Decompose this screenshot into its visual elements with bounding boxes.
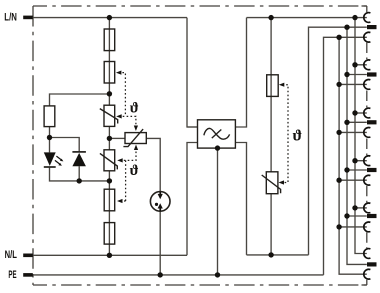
- junction protected L to arc bus: [352, 15, 357, 20]
- bus terminal arc upper: [355, 18, 367, 254]
- terminal N/L blade: [23, 254, 33, 258]
- wire group3 arc stub: [355, 112, 367, 114]
- thermal link theta2 dashed net: [120, 148, 136, 201]
- varistor MOV2 body: [104, 150, 115, 171]
- diode D2 bar: [72, 151, 86, 153]
- wire L input drop to converter: [187, 18, 198, 127]
- svg-text:N/L: N/L: [5, 249, 18, 261]
- junction group4 arc2: [336, 178, 341, 183]
- node L1 junction on L/N bus: [107, 15, 112, 20]
- junction GDT to PE bus: [158, 272, 163, 277]
- junction group5 arc: [352, 205, 357, 210]
- wire group5 arc2 stub: [339, 226, 367, 228]
- wire LED cathode to bottom rail: [50, 168, 110, 181]
- group1 arc upper: [364, 13, 371, 23]
- svg-text:ϑ: ϑ: [293, 128, 303, 145]
- wire diode D2 bottom: [78, 166, 80, 181]
- right varistor MOV4 diagonal: [262, 175, 281, 193]
- LED D1 emission arrows: [55, 156, 64, 166]
- junction group4 blade: [344, 167, 349, 172]
- group5 blade: [367, 214, 377, 218]
- theta2 arrow into RV3 bottom: [134, 145, 138, 151]
- enclosure dash-dot border right segments: [366, 6, 368, 12]
- resistor R1: [44, 106, 55, 127]
- group5 arc lower: [364, 222, 371, 232]
- wire right varistor to protected N: [270, 194, 272, 255]
- varistor MOV1 body: [104, 105, 115, 126]
- wire RV3 to GDT chain: [146, 138, 160, 191]
- bus terminal blade mid: [347, 27, 367, 264]
- wire node C through fuses to N/L: [108, 171, 110, 256]
- terminal L/N blade: [23, 16, 33, 20]
- wire group2 arc2 stub: [339, 83, 367, 85]
- theta2 arrow into MOV2: [117, 158, 123, 162]
- theta3 arrow into right disconnector: [279, 83, 285, 87]
- junction converter to PE bus: [215, 272, 220, 277]
- wire node A to resistor branch: [50, 94, 110, 138]
- wire group4 arc stub: [355, 160, 367, 162]
- wire protected N segment: [247, 254, 309, 256]
- group6 blade: [367, 262, 377, 266]
- junction group2 arc: [352, 62, 357, 67]
- varistor MOV1 diagonal: [100, 109, 118, 124]
- wire converter bottom to PE: [217, 148, 219, 275]
- fuse F3: [104, 189, 115, 211]
- junction group5 blade: [344, 213, 349, 218]
- LED D1 cathode bar: [44, 166, 56, 168]
- wire group5 blade stub: [347, 215, 367, 217]
- wire LED anode drop: [49, 138, 51, 153]
- right varistor MOV4 body: [266, 172, 278, 194]
- fuse F4: [104, 223, 115, 245]
- wire group2 arc stub: [355, 64, 367, 66]
- junction chain to N/L bus: [107, 253, 112, 258]
- series disconnector RV3 body: [125, 133, 146, 144]
- svg-text:ϑ: ϑ: [130, 100, 139, 116]
- junction group5 arc2: [336, 224, 341, 229]
- junction converter bottom pin: [215, 145, 220, 150]
- group2 arc lower: [364, 80, 371, 90]
- converter U1 sine symbol: [204, 128, 230, 139]
- thermal link theta3 dashed net: [282, 85, 288, 183]
- wire group5 arc stub: [355, 207, 367, 209]
- svg-text:PE: PE: [8, 269, 16, 281]
- wire group4 arc2 stub: [339, 179, 367, 181]
- wire right varistor chain top through disconnector: [270, 18, 272, 172]
- varistor MOV2 diagonal: [100, 153, 117, 169]
- right thermal disconnector body: [267, 75, 279, 97]
- junction group3 arc: [352, 110, 357, 115]
- converter U1 cross stroke: [212, 130, 222, 139]
- gas discharge tube gas dot: [155, 203, 158, 206]
- wire node B link: [108, 126, 110, 149]
- junction group3 arc2: [336, 130, 341, 135]
- wire group3 blade stub: [347, 121, 367, 123]
- series disconnector RV3 diagonal: [123, 129, 143, 147]
- wire PE bus: [33, 274, 324, 276]
- junction blade bus group1: [344, 25, 349, 30]
- svg-text:L/N: L/N: [4, 11, 17, 23]
- wire GDT to PE: [159, 211, 161, 275]
- junction resistor-LED node: [47, 135, 52, 140]
- theta1 arrow into F2: [116, 71, 122, 75]
- node L2 junction protected L bus: [268, 15, 273, 20]
- diode D2 triangle: [72, 153, 86, 166]
- group3 arc upper: [364, 108, 371, 118]
- thermal disconnector F2: [104, 62, 115, 84]
- border corner fills: [362, 5, 367, 7]
- theta3 arrow into MOV4: [279, 180, 285, 184]
- group3 arc lower: [364, 128, 371, 138]
- svg-text:ϑ: ϑ: [130, 163, 139, 179]
- junction group2 arc2: [336, 82, 341, 87]
- bus terminal arc lower: [339, 37, 367, 274]
- LED D1 triangle: [44, 152, 56, 166]
- enclosure dash-dot border left: [32, 6, 34, 285]
- group1 blade: [367, 25, 377, 29]
- wire protected L top bus: [247, 17, 367, 19]
- wire converter right-top riser to protected L bus: [187, 18, 246, 127]
- junction group2 blade: [344, 72, 349, 77]
- terminal contact arcs and blades column: [364, 13, 371, 280]
- wire main chain top through fuses: [108, 18, 110, 106]
- wire converter right-bottom drop: [235, 143, 246, 255]
- wire LED node to diode D2 top: [50, 138, 80, 152]
- wire node B to disconnector RV3: [109, 137, 125, 139]
- wire group3 arc2 stub: [339, 131, 367, 133]
- group4 arc upper: [364, 156, 371, 166]
- wire N input riser from N/L: [187, 143, 198, 256]
- theta1 arrow into MOV1: [116, 114, 122, 118]
- wire N/L bus: [33, 254, 187, 256]
- group5 arc upper: [364, 203, 371, 213]
- group6 arc lower: [364, 269, 371, 279]
- theta2 arrow into F3: [117, 199, 123, 203]
- node A junction: [107, 91, 112, 96]
- group4 arc lower: [364, 175, 371, 185]
- junction diode D2 bottom: [77, 178, 82, 183]
- wire group4 blade stub: [347, 169, 367, 171]
- node C junction: [107, 178, 112, 183]
- junction group4 arc: [352, 158, 357, 163]
- thermal link theta1 dashed net: [119, 73, 136, 128]
- node B junction: [107, 136, 112, 141]
- junction arc bus group1: [336, 35, 341, 40]
- wire L/N top bus: [33, 17, 187, 19]
- group4 blade: [367, 168, 377, 172]
- gas discharge tube electrodes: [155, 192, 163, 211]
- group2 arc upper: [364, 60, 371, 70]
- gas discharge tube circle: [150, 192, 170, 212]
- enclosure dash-dot border bottom: [33, 284, 367, 286]
- bus PE riser: [324, 37, 367, 275]
- bus protected N riser: [309, 27, 367, 255]
- junction group3 blade: [344, 120, 349, 125]
- group3 blade: [367, 120, 377, 124]
- group2 blade: [367, 72, 377, 76]
- terminal PE blade: [23, 273, 33, 277]
- converter U1 box: [198, 120, 236, 148]
- junction MOV4 to protected N: [268, 252, 273, 257]
- wire group2 blade stub: [347, 74, 367, 76]
- group1 arc lower: [364, 32, 371, 42]
- theta1 arrow into RV3: [134, 126, 138, 132]
- fuse F1: [104, 29, 115, 51]
- group6 arc upper: [364, 249, 371, 259]
